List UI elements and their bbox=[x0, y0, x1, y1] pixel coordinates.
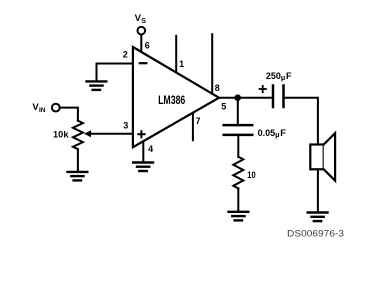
plus sign of C1 bbox=[260, 86, 266, 92]
svg-text:10k: 10k bbox=[53, 129, 70, 139]
capacitor C2 0.05uF bbox=[224, 125, 253, 135]
svg-text:5: 5 bbox=[221, 101, 226, 111]
wire pin 8 bbox=[211, 34, 213, 94]
power terminal VS bbox=[138, 27, 146, 35]
svg-text:250µ F: 250µ F bbox=[266, 71, 292, 82]
wire pin 1 bbox=[175, 36, 177, 73]
wire pin 4 bbox=[142, 141, 144, 161]
speaker LS1 bbox=[310, 145, 323, 170]
svg-text:LM386: LM386 bbox=[158, 93, 185, 107]
resistor R2 10 bbox=[233, 157, 243, 189]
minus sign (inverting input) bbox=[140, 62, 147, 64]
op-amp U1 LM386 triangle bbox=[133, 47, 219, 147]
svg-text:3: 3 bbox=[123, 120, 128, 130]
wire junction to C2 bbox=[237, 98, 239, 125]
svg-text:4: 4 bbox=[148, 144, 153, 154]
wire C1 to speaker bbox=[284, 98, 318, 145]
wire from VIN to potentiometer bbox=[60, 108, 78, 121]
wire pin 5 output bbox=[219, 97, 272, 99]
wire R2 to ground bbox=[237, 188, 239, 210]
svg-text:1: 1 bbox=[179, 59, 184, 69]
ground (R2) bbox=[229, 212, 249, 221]
input terminal VIN bbox=[52, 104, 60, 112]
svg-text:7: 7 bbox=[195, 116, 200, 126]
potentiometer R1 10k bbox=[73, 121, 83, 150]
wire pin 2 bbox=[97, 63, 133, 65]
ground (pin 4) bbox=[133, 163, 153, 172]
svg-text:DS006976-3: DS006976-3 bbox=[287, 229, 344, 239]
svg-text:6: 6 bbox=[145, 40, 150, 50]
wire pin 6 from VS to op-amp bbox=[140, 35, 142, 52]
wire pin 7 bbox=[192, 113, 194, 140]
wiper arrow of potentiometer bbox=[84, 130, 91, 137]
ground (speaker) bbox=[308, 213, 328, 222]
wire pot to ground bbox=[77, 149, 79, 171]
wire pin2 to ground bbox=[96, 64, 98, 81]
ground (pin 2) bbox=[87, 81, 107, 90]
wire pin 3 (wiper to op-amp) bbox=[90, 133, 133, 135]
svg-text:IN: IN bbox=[39, 107, 46, 114]
junction node output bbox=[234, 94, 241, 101]
wire C2 to R2 bbox=[237, 135, 239, 157]
capacitor C1 250uF (output coupling) bbox=[273, 86, 284, 108]
svg-text:S: S bbox=[141, 18, 146, 25]
wire speaker to ground bbox=[317, 169, 319, 211]
svg-text:10: 10 bbox=[247, 170, 255, 180]
svg-text:0.05µ F: 0.05µ F bbox=[258, 128, 287, 139]
ground (potentiometer) bbox=[68, 172, 88, 181]
svg-text:8: 8 bbox=[215, 83, 220, 93]
plus sign (non-inverting input) bbox=[138, 131, 144, 137]
svg-text:2: 2 bbox=[123, 50, 128, 60]
